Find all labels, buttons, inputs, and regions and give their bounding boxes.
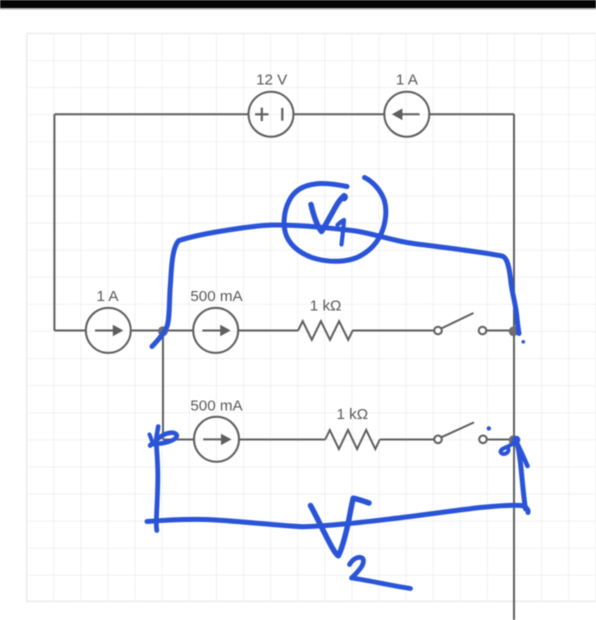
svg-text:1 A: 1 A xyxy=(97,288,120,305)
svg-text:1 kΩ: 1 kΩ xyxy=(336,406,368,423)
current source I3 500mA mid xyxy=(193,308,238,353)
annotation V2 left tick xyxy=(150,435,153,445)
voltage source V 12V xyxy=(249,92,294,137)
svg-text:12 V: 12 V xyxy=(256,72,288,89)
wire bottom row resistor to switch xyxy=(380,439,434,441)
annotation V2 left knot xyxy=(150,427,177,446)
annotation V2 arrow right barb xyxy=(516,442,527,467)
wire mid row node segment xyxy=(131,330,193,332)
annotation V2 arrow tip blob xyxy=(512,436,520,444)
wire mid row to resistor xyxy=(238,330,298,332)
wire vertical node to bottom row xyxy=(162,331,164,440)
node A mid-left junction xyxy=(158,326,168,336)
annotation V2 letter V xyxy=(311,498,370,556)
wire top middle xyxy=(294,113,385,115)
current source I1 1A top xyxy=(384,92,429,137)
annotation V2 arrow stem xyxy=(516,442,525,510)
svg-text:1 A: 1 A xyxy=(396,72,419,89)
annotation V1 circle loop xyxy=(284,178,386,262)
annotation V1 letter V xyxy=(311,196,345,232)
annotation V1 subscript 1 xyxy=(338,220,345,245)
current source I2 1A mid xyxy=(86,308,131,353)
annotation V2 arrow left barb xyxy=(501,442,517,454)
switch S1 mid xyxy=(434,313,486,334)
wire top right xyxy=(429,113,514,115)
annotation V2 left vertical xyxy=(156,446,158,531)
wire right vertical xyxy=(513,114,515,620)
current source I4 500mA bottom xyxy=(194,417,239,462)
svg-text:500 mA: 500 mA xyxy=(190,397,243,414)
wire top left xyxy=(54,113,248,115)
wire bottom row switch to node xyxy=(487,439,509,441)
annotation V2 horizontal stroke xyxy=(147,505,528,526)
blue ink dot below mid-right node xyxy=(522,340,526,344)
node C bottom-right junction xyxy=(509,435,519,445)
wire left vertical xyxy=(53,114,55,330)
wire mid row left xyxy=(54,330,85,332)
wire mid row switch to node xyxy=(487,330,510,332)
resistor R2 1 kOhm bottom xyxy=(325,430,380,449)
wire mid row resistor to switch xyxy=(352,330,434,332)
annotation V2 subscript 2 xyxy=(350,557,411,588)
blue ink dot near bottom switch xyxy=(487,426,491,430)
status bar xyxy=(0,0,596,8)
svg-text:500 mA: 500 mA xyxy=(190,288,243,305)
annotation V1 probe stroke xyxy=(152,225,519,347)
wire bottom row to resistor xyxy=(239,439,325,441)
switch S2 bottom xyxy=(434,422,487,443)
node B mid-right junction xyxy=(509,327,519,337)
svg-text:1 kΩ: 1 kΩ xyxy=(310,297,342,314)
resistor R1 1 kOhm mid xyxy=(298,321,353,340)
wire bottom row left xyxy=(163,439,194,441)
